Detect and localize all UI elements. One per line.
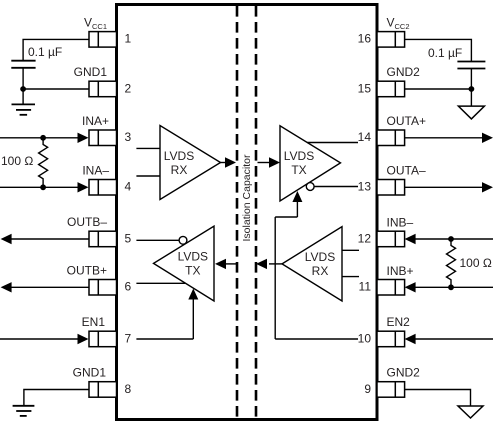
svg-text:OUTA+: OUTA+ bbox=[387, 114, 426, 128]
svg-text:OUTB+: OUTB+ bbox=[67, 263, 107, 277]
svg-text:14: 14 bbox=[358, 130, 372, 144]
svg-text:TX: TX bbox=[185, 264, 200, 278]
svg-text:GND1: GND1 bbox=[73, 366, 107, 380]
svg-text:1: 1 bbox=[125, 32, 132, 46]
svg-text:LVDS: LVDS bbox=[284, 149, 314, 163]
svg-text:0.1 µF: 0.1 µF bbox=[28, 45, 62, 59]
svg-text:11: 11 bbox=[359, 280, 372, 294]
svg-text:15: 15 bbox=[358, 81, 372, 95]
svg-text:LVDS: LVDS bbox=[305, 250, 335, 264]
svg-text:8: 8 bbox=[125, 382, 132, 396]
svg-text:RX: RX bbox=[312, 264, 329, 278]
svg-text:OUTA–: OUTA– bbox=[387, 163, 426, 177]
svg-text:INB+: INB+ bbox=[387, 264, 414, 278]
svg-text:TX: TX bbox=[291, 163, 306, 177]
svg-text:9: 9 bbox=[364, 382, 371, 396]
svg-text:6: 6 bbox=[125, 280, 132, 294]
svg-text:INA+: INA+ bbox=[82, 114, 109, 128]
svg-text:LVDS: LVDS bbox=[164, 149, 194, 163]
svg-text:3: 3 bbox=[125, 130, 132, 144]
svg-text:7: 7 bbox=[125, 331, 132, 345]
svg-text:0.1 µF: 0.1 µF bbox=[428, 46, 462, 60]
svg-text:16: 16 bbox=[358, 32, 372, 46]
svg-text:12: 12 bbox=[358, 231, 372, 245]
svg-text:100 Ω: 100 Ω bbox=[1, 154, 33, 168]
svg-text:100 Ω: 100 Ω bbox=[460, 256, 492, 270]
svg-text:Isolation Capacitor: Isolation Capacitor bbox=[241, 154, 253, 241]
svg-text:LVDS: LVDS bbox=[178, 250, 208, 264]
svg-text:EN2: EN2 bbox=[387, 315, 411, 329]
svg-text:INB–: INB– bbox=[387, 216, 414, 230]
svg-text:GND2: GND2 bbox=[387, 65, 421, 79]
svg-text:5: 5 bbox=[125, 231, 132, 245]
svg-text:2: 2 bbox=[125, 81, 132, 95]
svg-text:RX: RX bbox=[171, 163, 188, 177]
svg-text:GND1: GND1 bbox=[74, 65, 108, 79]
svg-text:INA–: INA– bbox=[82, 163, 109, 177]
svg-text:10: 10 bbox=[358, 331, 372, 345]
svg-text:VCC1: VCC1 bbox=[84, 15, 107, 31]
svg-text:13: 13 bbox=[358, 180, 372, 194]
svg-text:4: 4 bbox=[125, 180, 132, 194]
svg-text:OUTB–: OUTB– bbox=[67, 215, 107, 229]
svg-text:EN1: EN1 bbox=[82, 315, 106, 329]
svg-text:VCC2: VCC2 bbox=[387, 15, 410, 31]
svg-text:GND2: GND2 bbox=[387, 366, 421, 380]
